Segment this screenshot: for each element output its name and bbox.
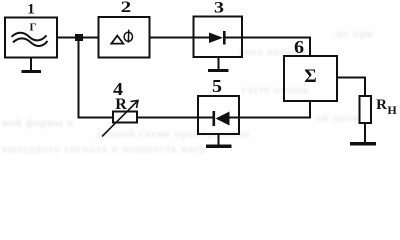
block 3 box (diode detector)	[194, 17, 243, 58]
ground bar block5	[206, 145, 232, 149]
svg-text:1: 1	[27, 2, 35, 18]
wire block2 to block3	[150, 37, 194, 39]
wire block3 to summing node corner	[242, 38, 310, 57]
diode D5 (points left)	[198, 111, 239, 126]
block 2 box (phase shifter)	[99, 17, 150, 58]
svg-text:R: R	[376, 97, 387, 113]
ground bar block3	[208, 69, 229, 72]
resistor RH body	[360, 96, 372, 123]
ground bar block1	[22, 70, 42, 73]
svg-text:Н: Н	[387, 103, 397, 117]
wire var resistor to block5	[137, 117, 198, 119]
label delta (phase shifter)	[111, 36, 123, 44]
wire block5 to block6 bottom input	[239, 101, 310, 118]
ground stub block5	[218, 134, 220, 145]
generator wave symbol (two tildes)	[12, 33, 48, 46]
junction node dot	[75, 34, 83, 41]
variable resistor arrow	[102, 101, 138, 137]
wire block1 to block2	[57, 37, 98, 39]
ground stub block1	[30, 58, 32, 71]
variable resistor body R4	[113, 112, 137, 123]
ground bar RH	[350, 142, 376, 146]
svg-text:3: 3	[214, 0, 224, 17]
diode D3 (points right)	[194, 31, 243, 45]
wire junction down to bottom row	[79, 41, 114, 118]
svg-text:6: 6	[294, 37, 304, 57]
block 6 box (summer)	[284, 56, 337, 101]
label phi (phase shifter)	[124, 32, 132, 41]
svg-text:R: R	[115, 96, 127, 113]
svg-text:5: 5	[212, 76, 222, 96]
svg-text:2: 2	[121, 0, 132, 16]
block 5 box (diode)	[198, 96, 239, 134]
ghost bleed-through text lines (scan noise)	[238, 46, 308, 58]
block 1 box (generator)	[5, 18, 57, 58]
svg-text:Г: Г	[30, 22, 37, 34]
svg-text:Σ: Σ	[304, 66, 316, 87]
ground stub block3	[218, 57, 220, 69]
wire block6 output to load resistor	[337, 78, 365, 97]
wire RH to ground	[364, 123, 366, 142]
